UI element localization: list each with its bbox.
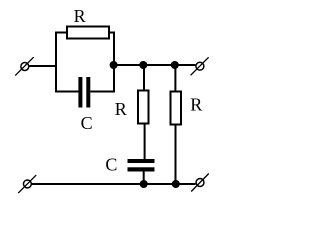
wire top bus (114, 64, 196, 66)
wire C2 to bottom bus (143, 171, 145, 184)
resistor R2 (138, 91, 149, 124)
wire stub to R1 left pin (55, 32, 67, 34)
label R (R1) (74, 6, 86, 26)
node D junction dot (140, 180, 148, 188)
wire bottom bus (32, 183, 196, 185)
wire loop bottom to C1 left plate (55, 91, 79, 93)
label R (R2) (115, 99, 127, 119)
terminal T4 (bottom-right) (191, 174, 209, 192)
wire node C down to R3 (174, 65, 176, 92)
wire R2 to C2 (144, 124, 146, 161)
wire stub R1 right pin (109, 32, 115, 34)
wire R3 to bottom bus (175, 125, 177, 185)
node B junction dot (139, 61, 147, 69)
wire right vertical of R1/C1 loop (113, 32, 115, 93)
wire left vertical of R1/C1 loop (55, 32, 57, 93)
svg-text:R: R (190, 94, 202, 114)
node E junction dot (172, 180, 180, 188)
wire node B down to R2 (143, 65, 145, 91)
label R (R3) (190, 94, 202, 114)
terminal T2 (top-right output) (191, 57, 209, 75)
resistor R1 (67, 27, 109, 39)
node A junction dot (110, 61, 118, 69)
svg-text:R: R (74, 6, 86, 26)
svg-text:C: C (81, 113, 93, 133)
svg-text:R: R (115, 99, 127, 119)
wire T1 to left branch (29, 65, 57, 67)
terminal T1 (top-left input) (15, 57, 33, 75)
terminal T3 (bottom-left) (18, 175, 36, 193)
capacitor C1 (78, 77, 90, 108)
capacitor C2 (128, 159, 155, 172)
wire C1 right plate to loop right (90, 91, 115, 93)
node C junction dot (171, 61, 179, 69)
svg-text:C: C (105, 154, 117, 174)
label C (C1) (81, 113, 93, 133)
resistor R3 (171, 92, 182, 125)
label C (C2) (105, 154, 117, 174)
